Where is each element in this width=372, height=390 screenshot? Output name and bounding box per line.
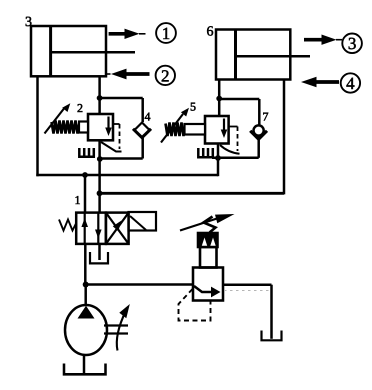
wire valve 2 bottom [98,140,101,159]
check valve 7 [250,125,267,139]
svg-text:4: 4 [144,109,150,123]
valve 2 pilot diagonal [101,142,122,152]
valve 5 drain spring [198,148,213,157]
wire pump suction [83,355,86,374]
wire bus A [36,174,218,177]
node junction at cyl3 rod line [97,95,103,101]
valve 2 adjustment arrow [45,103,71,133]
relief valve spring zigzag [204,217,216,233]
svg-text:2: 2 [161,66,170,85]
valve 5 internal arrow [221,119,228,139]
node 4 circled [341,73,360,93]
wire cyl6 rod port down right side [283,80,286,195]
wire pump line to relief valve [86,283,193,286]
valve 1 solenoid [129,212,157,231]
node 1 circled [156,23,176,43]
relief valve body [193,268,223,301]
cylinder 3 rod [51,51,135,54]
valve 1 tank line [98,244,101,260]
valve 1 flow path up arrow [81,213,88,244]
valve 1 flow path down arrow [95,213,102,244]
wire cyl3 cap port down left edge [36,76,39,176]
node pump outlet [83,282,89,288]
wire bus A branch down to valve 1 [84,175,87,213]
wire bus B [100,192,285,195]
svg-text:5: 5 [190,99,196,113]
valve 5 spring [166,123,186,137]
wire outlet to check valve 4 [100,157,143,160]
valve 1 crossed position [106,213,129,244]
relief valve internal arrow [194,286,221,297]
cylinder 6 rod [236,55,310,58]
svg-text:3: 3 [348,34,357,53]
node bus B left [97,190,103,196]
drain dashed faint [224,290,270,292]
node cyl6 cap junction [216,96,222,102]
wire down to tank right [270,285,273,339]
relief valve spring upper box [198,233,218,247]
relief valve spring lower box [200,247,217,268]
relief valve adjustment arrow [180,214,235,231]
cylinder 6 piston [234,30,237,80]
valve 5 adjustment arrow [161,108,189,143]
wire valve 5 bottom [217,144,220,177]
wire valve 1 P port down to pump [84,244,87,285]
pump P1 [65,305,107,355]
valve 2 internal arrow [105,117,112,137]
valve 2 drain spring [79,148,94,157]
wire down to check valve 7 [258,99,261,126]
valve 1 spring [59,220,76,231]
valve 5 body [205,116,229,144]
valve 2 spring box [79,122,88,133]
valve 2 spring [52,121,80,134]
node 2 circled [156,66,175,86]
wire relief valve outlet [223,283,272,286]
tank right [262,331,282,341]
arrow to node 1 [109,29,146,39]
valve 5 pilot dashed line [237,127,239,152]
valve 5 pilot diagonal [220,145,240,154]
wire check valve 7 bottom [257,137,260,158]
valve 5 spring box [185,124,206,135]
arrow to node 3 [304,35,342,45]
wire pump up [84,285,87,307]
valve 1 right position box [106,213,129,244]
wire branch to check valve 7 [219,98,259,101]
valve 2 body [88,114,113,140]
cylinder 3 body [31,26,106,76]
relief valve pilot dashed loop [179,289,211,321]
svg-text:1: 1 [74,193,80,207]
pump variable arrow [117,304,130,351]
node valve2 outlet [97,156,103,162]
valve 5 pilot stub [229,126,238,128]
valve 1 tank [90,252,108,263]
wire branch to check valve 4 [100,97,143,100]
valve 2 pilot stub [113,123,120,125]
svg-text:2: 2 [77,101,83,115]
wire valve2 outlet down [98,159,101,213]
check valve 4 [133,123,151,138]
svg-text:4: 4 [346,74,355,93]
wire cyl3 rod port down [98,76,101,114]
arrow to node 4 [301,77,339,87]
valve 1 left position box [76,213,106,244]
node bus A to valve 1 [82,172,88,178]
svg-text:1: 1 [162,24,171,43]
arrow to node 2 [106,69,150,80]
svg-text:3: 3 [25,15,32,30]
wire check valve 4 bottom [141,138,144,159]
wire down to check valve 4 [141,98,144,122]
svg-text:6: 6 [206,24,213,39]
svg-text:7: 7 [262,109,268,123]
cylinder 6 body [216,30,290,80]
pump compensator lines [104,326,128,334]
wire outlet to check valve 7 [212,157,259,160]
tank pump [64,364,106,375]
cylinder 3 piston [49,26,52,76]
node valve5 outlet [215,155,221,161]
valve 2 pilot dashed line [119,124,121,149]
node 3 circled [342,34,362,54]
wire cyl6 cap port down [218,80,221,117]
